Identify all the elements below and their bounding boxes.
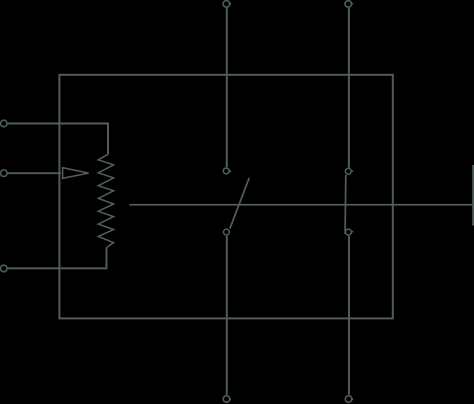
wiper arrow head: [63, 168, 89, 179]
wire: contact A2 down to bottom terminal A: [226, 236, 228, 395]
connection point dot (contact A1): [230, 171, 232, 173]
contact B2 (lower, pole 2): [345, 229, 351, 235]
terminal A top: [223, 1, 230, 8]
connection point dot (terminal A bottom): [229, 399, 231, 401]
potentiometer R1 zigzag element: [98, 154, 113, 247]
connection point dot (terminal B top): [352, 3, 354, 4]
contact B1 (upper, pole 2): [345, 168, 351, 174]
wire: wiper lead: [8, 172, 61, 174]
junction bar at right image edge: [472, 165, 474, 226]
enclosure box (component outline): [59, 75, 392, 319]
wire: pin1 to potentiometer top lead: [8, 124, 108, 155]
wire: top terminal A down to contact A1: [226, 8, 228, 168]
switch blade S1a (open, tilted): [230, 178, 249, 229]
common wire (pole line) across to right edge: [129, 204, 474, 206]
contact A2 (lower, pole 1): [223, 229, 229, 235]
contact A1 (upper, pole 1): [223, 168, 229, 174]
connection point dot (contact B2): [352, 231, 354, 233]
connection point dot (terminal A top): [230, 3, 232, 5]
terminal B top: [345, 1, 352, 8]
terminal pin 1 (pot end A): [1, 120, 8, 127]
terminal pin 2 (wiper): [1, 170, 8, 177]
terminal A bottom: [223, 396, 230, 403]
connection point dot (terminal B bottom): [352, 399, 354, 401]
connection point dot (contact B1): [352, 171, 354, 173]
terminal pin 3 (pot end B): [1, 265, 8, 272]
wire: contact B2 down to bottom terminal B: [348, 236, 350, 395]
terminal B bottom: [345, 396, 352, 403]
wire: top terminal B down to contact B1: [348, 8, 350, 168]
wire: potentiometer bottom lead to pin3: [8, 248, 107, 269]
switch blade S1b (closed, near vertical): [344, 175, 347, 234]
